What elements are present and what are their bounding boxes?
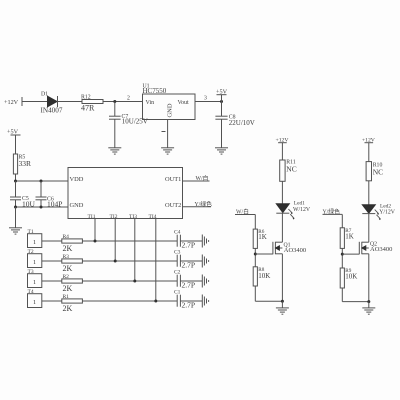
svg-text:T1: T1 <box>28 229 34 235</box>
resistor R6 1K <box>253 229 267 248</box>
svg-text:2: 2 <box>127 96 130 102</box>
ground under U1 <box>161 148 174 154</box>
svg-text:Y/绿色: Y/绿色 <box>195 200 213 208</box>
wire stub net W/white to gate branch A <box>235 208 255 230</box>
svg-text:OUT1: OUT1 <box>165 176 181 183</box>
wire Q1 source down <box>281 254 283 301</box>
svg-text:1: 1 <box>33 299 36 306</box>
svg-text:NC: NC <box>286 165 296 174</box>
junction dot row3 TI3 <box>133 280 136 283</box>
resistor R1 2K <box>62 294 83 313</box>
wire T2 to R3 <box>42 260 62 262</box>
svg-text:10K: 10K <box>345 272 357 280</box>
svg-text:W/白: W/白 <box>236 208 249 216</box>
terminal T2 <box>28 249 42 268</box>
wire LED1 to Q1 drain <box>281 213 283 242</box>
resistor R9 10K <box>340 268 357 288</box>
wire R9 bottom to ground rail B <box>342 288 369 302</box>
wire C1 to touch ground <box>180 300 202 302</box>
capacitor C8 22U/10V <box>215 102 254 148</box>
op-amp U2 touch controller IC <box>68 168 183 221</box>
node +5V (left branch supply) <box>7 129 21 155</box>
transistor Q2 AO3400 <box>359 241 392 254</box>
svg-text:2K: 2K <box>63 264 73 273</box>
svg-text:+12V: +12V <box>4 99 19 106</box>
wire diode cathode to R12 <box>58 101 83 103</box>
junction dot at +5V node <box>220 100 223 103</box>
svg-text:T4: T4 <box>28 289 34 295</box>
op-amp U1 HC7550 regulator <box>143 84 196 120</box>
capacitor C3 2.7P <box>174 250 195 270</box>
node +12V (branch A supply) <box>276 138 290 161</box>
svg-text:Vout: Vout <box>178 100 190 106</box>
wire row1 R4 to C4 <box>82 240 177 242</box>
svg-text:22U/10V: 22U/10V <box>229 119 255 127</box>
svg-text:C4: C4 <box>174 230 181 236</box>
diode D1 IN4007 <box>41 92 63 115</box>
capacitor C6 104P <box>36 181 63 209</box>
wire GND rail <box>16 206 69 208</box>
svg-text:1K: 1K <box>345 233 354 241</box>
ground rotated row4 <box>202 295 208 308</box>
junction dot source A bottom <box>281 300 284 303</box>
wire U1 Vout pin 3 to +5V node <box>195 96 222 102</box>
LED Led2 Y/12V <box>362 204 395 221</box>
junction dot gate B <box>341 253 344 256</box>
wire T3 to R2 <box>42 280 62 282</box>
wire OUT1 stub, net W/white <box>183 174 210 182</box>
svg-text:NC: NC <box>373 168 383 177</box>
wire T4 to R1 <box>42 300 62 302</box>
wire R5 to VDD rail <box>15 174 17 181</box>
svg-text:2.7P: 2.7P <box>182 281 196 290</box>
resistor R10 NC <box>366 162 383 181</box>
wire C3 to touch ground <box>180 260 202 262</box>
ground under C8 <box>215 148 228 154</box>
svg-text:R2: R2 <box>63 274 70 280</box>
wire C4 to touch ground <box>180 240 202 242</box>
wire gate A to Q1 <box>255 253 273 255</box>
svg-text:Led1: Led1 <box>294 200 305 206</box>
wire R11 to LED1 <box>281 181 283 204</box>
svg-text:1: 1 <box>33 279 36 286</box>
node +5V (regulator output) <box>216 89 228 102</box>
svg-text:R4: R4 <box>63 234 70 240</box>
wire +12V tick to diode anode <box>22 101 48 103</box>
junction dot row1 TI1 <box>94 240 97 243</box>
wire row3 R2 to C2 <box>82 280 177 282</box>
ground under C7 <box>108 148 121 154</box>
svg-text:Y/绿色: Y/绿色 <box>323 207 341 215</box>
svg-text:AO3400: AO3400 <box>370 246 392 253</box>
svg-text:IN4007: IN4007 <box>41 107 63 115</box>
wire stub net Y/green to gate branch B <box>323 207 343 227</box>
svg-text:C3: C3 <box>174 250 181 256</box>
wire row2 R3 to C3 <box>82 260 177 262</box>
svg-text:W/白: W/白 <box>196 174 209 182</box>
junction dot VDD rail left <box>14 180 17 183</box>
transistor Q1 AO3400 <box>273 242 306 255</box>
svg-text:TI3: TI3 <box>129 214 137 220</box>
svg-text:10K: 10K <box>258 272 270 280</box>
svg-text:VDD: VDD <box>70 176 84 183</box>
svg-text:1: 1 <box>33 239 36 246</box>
junction dot row4 TI4 <box>154 300 157 303</box>
junction dot VDD rail C6 tap <box>40 180 43 183</box>
wire Q2 source down <box>368 254 370 302</box>
svg-text:3: 3 <box>204 96 207 102</box>
capacitor C5 10U <box>10 181 36 209</box>
wire R10 to LED2 <box>368 181 370 205</box>
svg-text:T2: T2 <box>28 249 34 255</box>
svg-text:1K: 1K <box>258 233 267 241</box>
wire VDD rail <box>16 180 69 182</box>
junction dot source B bottom <box>367 300 370 303</box>
svg-text:2.7P: 2.7P <box>182 241 196 250</box>
wire C2 to touch ground <box>180 280 202 282</box>
ground rotated row1 <box>202 235 208 248</box>
capacitor C1 2.7P <box>174 290 195 310</box>
wire U1 GND pin 1 <box>162 120 168 148</box>
wire TI1 pin stub <box>94 219 96 242</box>
terminal T4 <box>28 289 42 308</box>
svg-text:TI1: TI1 <box>88 214 96 220</box>
ground rotated row3 <box>202 275 208 288</box>
svg-text:R1: R1 <box>63 294 70 300</box>
svg-text:R3: R3 <box>63 254 70 260</box>
svg-text:D1: D1 <box>41 92 48 98</box>
resistor R12 47R <box>81 95 103 113</box>
svg-text:T3: T3 <box>28 269 34 275</box>
svg-text:2.7P: 2.7P <box>182 261 196 270</box>
capacitor C2 2.7P <box>174 270 195 290</box>
svg-text:2K: 2K <box>63 284 73 293</box>
resistor R2 2K <box>62 274 83 293</box>
junction dot GND rail C6 <box>40 206 43 209</box>
wire T1 to R4 <box>42 240 62 242</box>
svg-text:1: 1 <box>33 259 36 266</box>
wire R12 to U1 Vin, pin 2 <box>103 96 143 102</box>
junction dot at C7 tap <box>113 100 116 103</box>
wire to ground branch B <box>368 302 370 308</box>
wire TI3 pin stub <box>134 219 136 282</box>
resistor R8 10K <box>253 267 270 286</box>
capacitor C7 10U/25V <box>109 102 148 148</box>
svg-text:HC7550: HC7550 <box>143 87 167 95</box>
ground branch B <box>362 308 375 314</box>
wire TI2 pin stub <box>114 219 116 262</box>
svg-text:C2: C2 <box>174 270 181 276</box>
wire row4 R1 to C1 <box>82 300 177 302</box>
wire LED2 to Q2 drain <box>368 214 370 243</box>
wire to ground branch A <box>281 301 283 307</box>
svg-text:33R: 33R <box>19 159 32 168</box>
ground rotated row2 <box>202 255 208 268</box>
junction dot GND rail left <box>14 206 17 209</box>
resistor R7 1K <box>340 228 354 249</box>
svg-text:+5V: +5V <box>7 129 19 136</box>
svg-text:OUT2: OUT2 <box>165 202 181 209</box>
svg-text:GND: GND <box>167 103 174 117</box>
svg-text:AO3400: AO3400 <box>284 247 306 254</box>
svg-text:TI2: TI2 <box>110 214 118 220</box>
svg-text:Y/12V: Y/12V <box>379 209 396 215</box>
svg-text:2K: 2K <box>63 244 73 253</box>
terminal T1 <box>28 229 42 248</box>
ground branch A <box>276 308 289 314</box>
svg-text:GND: GND <box>70 202 84 209</box>
resistor R3 2K <box>62 254 83 273</box>
wire gate B to Q2 <box>342 253 359 255</box>
ground left rail <box>9 228 22 234</box>
LED Led1 W/12V <box>276 200 311 219</box>
wire R6 to gate junction <box>254 248 256 266</box>
wire GND rail to ground <box>15 207 17 228</box>
resistor R11 NC <box>280 160 297 182</box>
wire TI4 pin stub <box>155 219 157 302</box>
terminal T3 <box>28 269 42 288</box>
wire R7 to gate junction B <box>341 248 343 268</box>
svg-text:W/12V: W/12V <box>293 207 311 213</box>
svg-text:47R: 47R <box>81 104 95 113</box>
capacitor C4 2.7P <box>174 230 195 250</box>
wire OUT2 stub, net Y/green <box>183 200 213 208</box>
node +12V (top-left supply) <box>4 97 22 106</box>
svg-text:C1: C1 <box>174 290 181 296</box>
resistor R5 33R <box>13 154 31 174</box>
svg-text:2K: 2K <box>63 304 73 313</box>
svg-text:2.7P: 2.7P <box>182 301 196 310</box>
svg-text:10U/25V: 10U/25V <box>122 117 148 125</box>
junction dot row2 TI2 <box>114 260 117 263</box>
svg-text:Vin: Vin <box>146 100 155 106</box>
node +12V (branch B supply) <box>362 138 376 162</box>
svg-text:R12: R12 <box>81 95 91 101</box>
wire R8 bottom to ground rail A <box>255 286 282 301</box>
resistor R4 2K <box>62 234 83 253</box>
junction dot gate A <box>254 253 257 256</box>
